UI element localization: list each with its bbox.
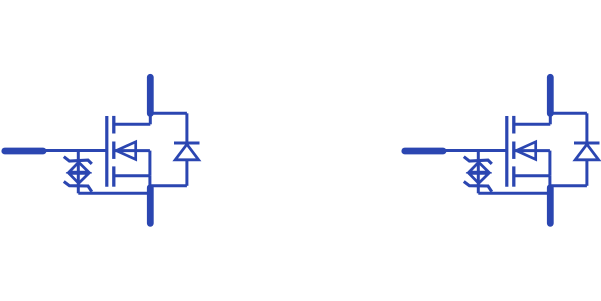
wire body lead drop to source of Q2 — [548, 151, 551, 176]
gate pin terminal of Q1 — [5, 148, 43, 155]
zener Z1b triangle of Q1 — [69, 173, 89, 183]
channel segment bottom (source) of Q2 — [512, 166, 515, 186]
wire body lead horizontal of Q1 — [114, 149, 150, 152]
source pin terminal of Q2 — [547, 188, 554, 224]
transistor Q2 (right N-channel power MOSFET with body diode and gate-source back-to-back zeners) — [405, 77, 600, 223]
arrow of Q1 (N-channel body arrow) — [116, 142, 136, 160]
body diode D2a cathode bar of Q2 — [574, 142, 600, 145]
channel segment top (drain) of Q1 — [112, 116, 115, 134]
zener Z2a triangle of Q2 — [469, 162, 489, 172]
zener Z2b cathode bar (source side) of Q2 — [464, 182, 492, 192]
wire body diode cathode vertical of Q1 — [185, 113, 188, 143]
channel segment bottom (source) of Q1 — [112, 166, 115, 186]
wire gate lead of Q2 — [441, 149, 507, 152]
zener Z2a cathode bar (gate side) of Q2 — [464, 157, 492, 164]
zener Z2b triangle of Q2 — [469, 173, 489, 183]
wire body diode anode vertical of Q2 — [585, 160, 588, 186]
transistor Q1 (left N-channel power MOSFET with body diode and gate-source back-to-back zeners) — [5, 77, 200, 223]
body diode D1a triangle of Q1 — [175, 144, 198, 160]
wire body diode to source of Q1 — [150, 184, 187, 187]
zener Z1b cathode bar (source side) of Q1 — [64, 182, 92, 192]
gate pin terminal of Q2 — [405, 148, 443, 155]
wire source vertical stub of Q1 — [148, 176, 151, 189]
zener Z1a triangle of Q1 — [69, 162, 89, 172]
wire gate to zener of Q2 (axis through zeners) of Q2 — [477, 151, 480, 194]
wire gate to zener of Q1 (axis through zeners) of Q1 — [77, 151, 80, 194]
wire gate lead of Q1 — [41, 149, 107, 152]
wire drain vertical stub of Q2 — [549, 111, 552, 124]
wire drain vertical stub of Q1 — [149, 111, 152, 124]
zener Z1a cathode bar (gate side) of Q1 — [64, 157, 92, 164]
drain pin terminal of Q1 — [147, 77, 154, 113]
wire body diode to source of Q2 — [550, 184, 587, 187]
wire zener-source bottom of Q2 — [478, 192, 550, 195]
wire drain-channel of Q2 — [514, 123, 550, 126]
channel segment middle (body) of Q2 — [512, 142, 515, 159]
body diode D2a triangle of Q2 — [575, 144, 598, 160]
channel segment top (drain) of Q2 — [512, 116, 515, 134]
wire drain-channel of Q1 — [114, 123, 150, 126]
wire drain to body diode of Q2 — [550, 112, 587, 115]
wire body lead horizontal of Q2 — [514, 149, 550, 152]
body diode D1a cathode bar of Q1 — [174, 142, 200, 145]
wire source-channel of Q2 — [514, 174, 550, 177]
channel segment middle (body) of Q1 — [112, 142, 115, 159]
wire body diode anode vertical of Q1 — [185, 160, 188, 186]
gate electrode plate of Q1 — [105, 116, 108, 187]
source pin terminal of Q1 — [147, 188, 154, 224]
wire source-channel of Q1 — [114, 174, 150, 177]
arrow of Q2 (N-channel body arrow) — [516, 142, 536, 160]
wire body diode cathode vertical of Q2 — [585, 113, 588, 143]
gate electrode plate of Q2 — [505, 116, 508, 187]
wire zener-source bottom of Q1 — [78, 192, 150, 195]
wire body lead drop to source of Q1 — [148, 151, 151, 176]
wire drain to body diode of Q1 — [150, 112, 187, 115]
wire source vertical stub of Q2 — [548, 176, 551, 189]
drain pin terminal of Q2 — [547, 77, 554, 113]
